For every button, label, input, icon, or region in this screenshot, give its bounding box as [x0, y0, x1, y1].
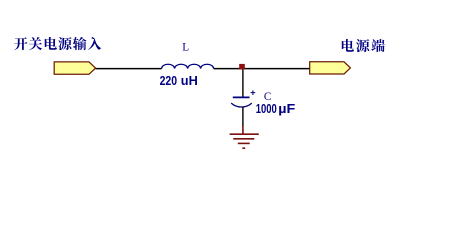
net label 开关电源输入 (switching power input) — [14, 37, 101, 50]
polarity + mark — [251, 90, 256, 95]
wire: inductor to junction — [214, 68, 243, 70]
ground symbol — [230, 125, 259, 148]
wire: capacitor to ground — [242, 107, 244, 126]
svg-text:µF: µF — [278, 101, 295, 116]
wire: junction to port P2 — [243, 68, 310, 70]
capacitor C bottom plate (polarized arc) — [231, 103, 252, 107]
svg-text:1000: 1000 — [256, 101, 277, 116]
svg-text:L: L — [182, 42, 189, 54]
port P2 (output) — [310, 62, 351, 74]
capacitor C top plate — [233, 96, 250, 98]
svg-text:uH: uH — [181, 73, 198, 88]
wire: port P1 to inductor L — [96, 68, 162, 70]
svg-text:220: 220 — [160, 73, 178, 88]
net label 电源端 (power terminal) — [342, 39, 385, 52]
wire: junction down to capacitor C — [242, 68, 244, 97]
inductor L (220 uH) — [162, 64, 214, 68]
port P1 (input) — [54, 62, 95, 74]
junction node — [239, 64, 245, 70]
